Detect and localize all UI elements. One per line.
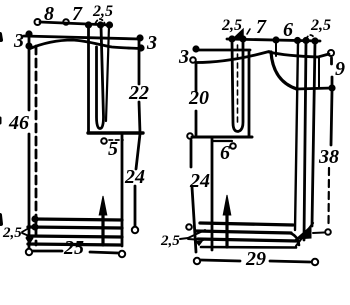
svg-text:7: 7 xyxy=(256,16,267,38)
svg-text:46: 46 xyxy=(8,112,29,134)
svg-text:2,5: 2,5 xyxy=(2,225,22,241)
svg-text:24: 24 xyxy=(189,170,210,192)
svg-text:2,5: 2,5 xyxy=(92,3,113,20)
svg-text:2,5: 2,5 xyxy=(160,233,180,249)
svg-text:6: 6 xyxy=(283,19,293,41)
svg-text:20: 20 xyxy=(188,87,209,109)
svg-text:7: 7 xyxy=(72,3,83,25)
svg-text:5: 5 xyxy=(108,138,118,160)
svg-text:8: 8 xyxy=(44,3,54,25)
svg-text:2,5: 2,5 xyxy=(221,17,242,34)
svg-text:3: 3 xyxy=(178,46,189,68)
svg-text:6: 6 xyxy=(220,142,230,164)
svg-text:3: 3 xyxy=(13,30,24,52)
svg-text:3: 3 xyxy=(146,32,157,54)
svg-text:29: 29 xyxy=(245,248,266,270)
svg-text:24: 24 xyxy=(124,166,145,188)
svg-text:9: 9 xyxy=(335,58,345,80)
svg-text:38: 38 xyxy=(318,146,339,168)
svg-text:25: 25 xyxy=(63,237,84,259)
svg-text:2,5: 2,5 xyxy=(310,17,331,34)
svg-text:22: 22 xyxy=(128,82,149,104)
